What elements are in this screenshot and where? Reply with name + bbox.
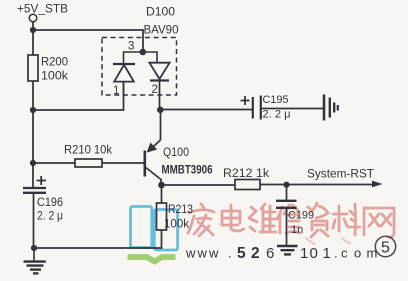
svg-text:C196: C196 [37,197,63,209]
svg-text:5: 5 [237,245,246,262]
wire base junction C to transistor base [33,162,75,164]
wire junction E down to emitter [160,110,162,140]
watermark chinese char 电 [222,205,244,231]
diode D2 (pin2) cathode bar [150,79,169,81]
diode D1 lead [123,82,125,96]
svg-text:c: c [341,246,348,261]
svg-text:100k: 100k [164,219,189,231]
svg-text:R212 1k: R212 1k [223,168,269,180]
watermark logo green ribbon [128,257,176,262]
watermark chinese char 料 [333,204,360,235]
transistor Q100 emitter with arrow [149,140,161,151]
svg-text:w: w [185,246,196,261]
diode D2 (pin2) triangle [149,63,169,79]
svg-text:BAV90: BAV90 [144,25,179,37]
svg-text:R200: R200 [41,57,68,69]
svg-text:100k: 100k [41,71,68,83]
capacitor C199 plates [276,201,297,208]
capacitor C196 plates [23,188,46,193]
resistor R200 [28,55,38,81]
wire junction G down to C199 [286,185,288,200]
capacitor C195 plus sign [241,96,250,105]
wire junction B down to base junction C [32,110,34,163]
wire C195 right plate to ground [262,108,324,110]
watermark logo open-book right page [154,210,177,251]
ground GND2 right of C195 (rotated) [324,95,338,121]
resistor R213 [157,203,167,230]
watermark chinese char 网 [364,208,394,237]
watermark chinese char 资 [308,203,328,237]
wire junction G to output arrow [287,184,377,186]
ground GND3 below C199 [277,246,298,254]
svg-text:1n: 1n [291,224,303,236]
resistor R212 [235,180,260,190]
svg-text:2: 2 [251,245,260,262]
transistor Q100 base bar [144,151,147,177]
svg-text:1: 1 [323,245,331,262]
diode D1 (pin1) cathode bar [113,63,135,65]
svg-text:.: . [228,246,232,261]
junction dot C base [30,160,36,166]
svg-text:R213: R213 [168,204,193,216]
watermark logo open-book cyan left page [131,207,152,248]
wire R212 to junction G [260,184,287,186]
svg-text:Q100: Q100 [163,147,189,159]
svg-text:w: w [208,246,219,261]
svg-text:1: 1 [113,85,119,97]
wire R200 bottom to junction B [32,81,34,110]
wire C199 bottom to ground [286,208,288,245]
capacitor C195 plates [253,96,261,120]
transistor Q100 collector [146,168,161,186]
svg-text:w: w [197,246,208,261]
wire junction to R200 top [32,30,34,55]
resistor R210 [75,159,102,167]
wire junction F down to R213 [161,185,163,203]
junction dot F collector node [158,182,165,189]
svg-text:2. 2 μ: 2. 2 μ [37,211,63,223]
svg-text:2: 2 [152,84,158,96]
junction dot A top [30,27,36,33]
svg-text:.: . [334,246,338,261]
diode D100 dashed package box [102,38,177,96]
page number circled 5 [375,236,395,256]
diode D100 pin3 interconnect [124,52,158,64]
wire top rail to D100 pin3 [33,30,143,52]
wire diode pin2 down to emitter junction E [159,81,161,111]
capacitor C196 plus sign [37,176,47,185]
output arrow System-RST [372,181,383,188]
junction dot B below R200 [30,107,36,113]
svg-text:C199: C199 [288,210,314,222]
wire C196 bottom plate to bottom junction D [33,193,35,248]
wire junction E to C195 [161,109,253,111]
svg-text:System-RST: System-RST [307,169,374,181]
svg-text:MMBT3906: MMBT3906 [162,165,213,177]
svg-text:0: 0 [310,245,318,262]
junction dot D bottom rail [31,245,37,251]
wire bottom rail to R213 bottom [34,230,162,248]
diode D1 (pin1) triangle [114,65,134,82]
svg-text:6: 6 [266,245,274,262]
junction dot E emitter node [157,107,164,114]
svg-text:+5V_STB: +5V_STB [17,4,68,16]
svg-text:C195: C195 [263,94,289,106]
svg-text:R210 10k: R210 10k [64,145,112,157]
svg-text:5: 5 [381,240,390,257]
ground GND1 bottom left [24,248,46,273]
svg-text:o: o [354,246,361,261]
watermark chinese char 修 [277,205,300,233]
svg-text:3: 3 [128,41,134,53]
node +5V_STB terminal circle [29,14,37,22]
junction dot G output node [283,182,289,188]
watermark faint stroke marks [306,238,350,244]
wire collector junction F to R212 [162,184,236,186]
wire terminal to top junction [32,22,34,30]
svg-text:1: 1 [300,245,308,262]
wire R210 right to base bar [102,162,144,164]
wire junction B to diode pin1 [33,82,124,110]
schematic ink [28,14,376,248]
wire base junction C to C196 top plate [32,163,34,187]
watermark chinese char 维 [249,204,276,232]
svg-text:2. 2 μ: 2. 2 μ [263,109,291,121]
svg-text:D100: D100 [146,7,175,19]
watermark chinese char 家 [188,204,214,236]
junction dot pin3 [140,49,147,56]
